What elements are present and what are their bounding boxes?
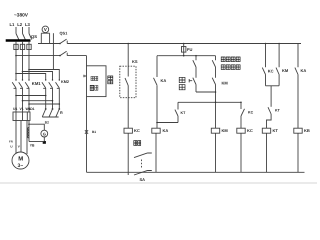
controller box (speed regulator)	[87, 66, 107, 97]
wire phase L1 drop	[15, 27, 17, 34]
wire parallel join	[196, 91, 216, 93]
motor M circle	[12, 152, 29, 169]
svg-text:KA: KA	[301, 68, 307, 73]
wire brake branch top	[28, 123, 30, 125]
fuse FU1-a	[14, 44, 18, 49]
thermal relay FR box	[13, 112, 30, 121]
fuse FU1-c	[27, 44, 31, 49]
selector SA verticals	[127, 133, 129, 175]
wire KM1 bottoms	[15, 88, 17, 112]
svg-text:KC: KC	[134, 128, 140, 133]
wire tap vertical	[52, 33, 54, 69]
svg-text:D1: D1	[30, 107, 34, 111]
svg-text:FU: FU	[187, 47, 192, 52]
bottom faint border line	[0, 182, 317, 184]
svg-text:QS: QS	[31, 34, 37, 39]
svg-text:V: V	[18, 145, 20, 149]
branch far right	[295, 44, 298, 129]
wire motor leads	[16, 121, 27, 155]
svg-text:L3: L3	[25, 22, 31, 27]
bold label above SA	[134, 141, 141, 146]
contactor KM1 tap line 3 from L1	[15, 73, 17, 75]
svg-text:KA: KA	[161, 78, 167, 83]
svg-text:KS: KS	[132, 59, 138, 64]
coil KA	[152, 128, 160, 133]
bold label left stack	[179, 77, 185, 89]
wire left return drop	[86, 56, 88, 173]
button column 2	[215, 56, 217, 61]
svg-text:KC: KC	[248, 111, 254, 115]
wire L3 to contacts	[28, 50, 30, 80]
svg-text:L1: L1	[10, 22, 16, 27]
selector SA blade 2	[134, 170, 152, 175]
node junction L1 tap	[15, 55, 17, 57]
wire cross line 2	[23, 100, 53, 102]
svg-text:KM: KM	[222, 81, 229, 86]
wire L3 below bar	[28, 42, 30, 45]
svg-text:KT: KT	[181, 111, 187, 115]
resistor brush R bar	[42, 116, 58, 118]
relay KT contact branch	[177, 102, 179, 109]
svg-text:KM2: KM2	[61, 80, 69, 84]
svg-text:QS1: QS1	[60, 31, 69, 36]
brake branch wire	[28, 121, 30, 142]
voltmeter PV circle	[42, 26, 49, 33]
contactor KM1 main contacts	[12, 82, 29, 88]
box text blobs	[90, 76, 98, 90]
svg-text:V1: V1	[20, 107, 24, 111]
coil KS branch coil	[124, 128, 132, 133]
button column 1	[195, 55, 197, 57]
svg-text:3~: 3~	[18, 163, 24, 169]
wire from QS1 pole B	[67, 55, 86, 57]
wire control feed A	[38, 43, 60, 45]
svg-text:YB: YB	[30, 144, 35, 148]
svg-text:B1: B1	[92, 130, 96, 134]
svg-text:KM: KM	[222, 128, 229, 133]
disconnect switch QS blade 3	[29, 34, 32, 40]
svg-text:SA: SA	[140, 177, 146, 182]
svg-text:KM: KM	[282, 68, 289, 73]
svg-text:KT: KT	[275, 109, 281, 113]
parallel pair branch	[265, 43, 267, 45]
relay KA branch	[157, 56, 158, 77]
contactor KM1 tap line 2 from L2	[22, 71, 24, 73]
clutch coil bumps	[28, 128, 29, 138]
speed relay KS dashed box	[120, 66, 136, 98]
wire L2 below bar	[22, 42, 24, 45]
wire cross line 1	[16, 95, 46, 97]
svg-text:G: G	[43, 131, 46, 136]
wire L1 to contacts	[15, 50, 17, 80]
svg-text:FR: FR	[9, 140, 13, 144]
coil KB	[294, 128, 302, 133]
wire KM2 bottoms to cross lines	[46, 88, 60, 104]
wire control rail 2	[158, 55, 215, 57]
svg-text:B2: B2	[45, 120, 49, 124]
contactor KM2 main contacts	[42, 82, 59, 88]
wire hold line	[178, 101, 241, 103]
wire top rail	[67, 43, 301, 45]
switch QS1 pole B	[59, 55, 61, 57]
resistor brush R diagonals	[42, 109, 59, 117]
wire L1 below bar	[15, 42, 17, 45]
contactor KM1 tap line 1 from L3	[28, 69, 30, 71]
svg-text:U1: U1	[13, 107, 17, 111]
svg-text:L2: L2	[17, 22, 23, 27]
connector mark on return wire	[85, 130, 88, 134]
coil KC	[237, 128, 245, 133]
fuse FU drop	[183, 43, 185, 45]
bold label right of box	[108, 76, 113, 84]
disconnect switch QS blade 2	[23, 34, 26, 40]
selector SA linkage dashes	[141, 160, 143, 169]
svg-text:U: U	[10, 145, 12, 149]
coil KT	[262, 128, 270, 133]
shaft coupling square	[43, 137, 45, 141]
wire bottom rail	[87, 171, 305, 173]
disconnect switch QS blade 1	[16, 34, 19, 40]
svg-text:KA: KA	[163, 128, 169, 133]
bold annotation two lines	[221, 57, 240, 69]
coil KM	[211, 128, 219, 133]
selector SA blade 1	[134, 153, 152, 158]
wire cross line 3	[29, 103, 59, 105]
svg-text:KB: KB	[304, 128, 310, 133]
KS contact	[125, 78, 128, 86]
fuse FU1-b	[20, 44, 24, 49]
branch KC contact	[240, 102, 242, 109]
svg-text:KT: KT	[273, 128, 279, 133]
wire L2 to contacts	[22, 50, 24, 80]
wire phase L2 drop	[22, 27, 24, 34]
svg-text:R: R	[60, 111, 63, 115]
svg-text:~380V: ~380V	[14, 13, 29, 19]
speed relay KS branch	[127, 43, 129, 45]
svg-text:KC: KC	[268, 69, 274, 74]
voltmeter PV legs	[41, 33, 49, 43]
wire control tap B	[16, 55, 60, 57]
tacho generator circle	[41, 130, 48, 137]
svg-text:KC: KC	[247, 128, 253, 133]
disconnect switch QS linkage bar	[6, 39, 31, 41]
resistor brush R drops	[46, 96, 60, 110]
svg-text:KM1: KM1	[32, 81, 42, 86]
wire phase L3 drop	[28, 27, 30, 34]
svg-text:M: M	[18, 156, 23, 163]
svg-text:V: V	[44, 27, 47, 32]
wire brake bottom	[29, 141, 44, 143]
switch QS1 pole A	[59, 43, 61, 45]
